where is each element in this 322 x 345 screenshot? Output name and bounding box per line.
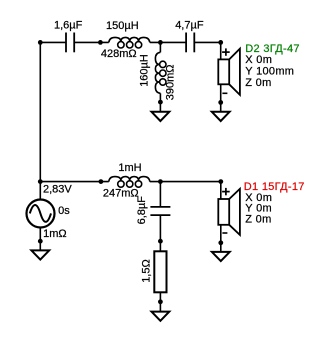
D2 plus terminal [222, 48, 230, 55]
junction C3-R1 [158, 239, 163, 244]
svg-text:Y 100mm: Y 100mm [245, 66, 294, 78]
svg-text:247mΩ: 247mΩ [103, 188, 139, 200]
node C1-L1 [98, 40, 103, 45]
node L1-C2-L2 [158, 40, 163, 45]
inductor L1 150µH / 428mΩ [109, 37, 150, 48]
capacitor C2 4,7µF plates [186, 33, 194, 53]
wire node to L2 [159, 42, 161, 52]
D2 minus terminal [222, 92, 227, 94]
wire L2 to ground [159, 93, 161, 112]
wire C3 to R1 [159, 216, 161, 252]
speaker D1 symbol [218, 189, 240, 235]
svg-text:D2 3ГД-47: D2 3ГД-47 [245, 43, 300, 55]
svg-text:1,6µF: 1,6µF [54, 19, 83, 31]
ground under R1 [152, 312, 170, 321]
wire D1 to ground [220, 225, 222, 252]
svg-text:160µH: 160µH [138, 54, 150, 87]
node source-L3 [99, 179, 104, 184]
resistor R1 1,5Ω body [154, 251, 166, 292]
wire D2 to ground [220, 84, 222, 112]
wire left rail vertical [39, 42, 41, 181]
junction D1-ground [218, 240, 223, 245]
wire C2 to D2 node [195, 41, 221, 43]
svg-text:2,83V: 2,83V [43, 183, 72, 195]
wire bottom rail: source to L3 [40, 181, 109, 183]
junction source-ground [38, 239, 43, 244]
svg-text:Z 0m: Z 0m [245, 214, 271, 226]
capacitor C3 6,8µF plates [150, 207, 170, 215]
junction D2-ground [218, 100, 223, 105]
node source-bottom rail [38, 179, 43, 184]
ground under D1 [212, 252, 230, 261]
D1 plus terminal [222, 188, 230, 195]
junction L2-ground [158, 100, 163, 105]
svg-text:0s: 0s [58, 205, 70, 217]
source V1 circle [27, 200, 55, 228]
inductor L2 160µH / 390mΩ vertical [155, 52, 166, 93]
ground under D2 [212, 112, 230, 121]
wire C1 to L1 [75, 41, 109, 43]
svg-text:428mΩ: 428mΩ [101, 48, 137, 60]
svg-text:1,5Ω: 1,5Ω [141, 259, 153, 283]
inductor L3 1mH / 247mΩ [109, 177, 150, 188]
ground under L2 [152, 112, 170, 121]
source V1 sine [30, 205, 51, 222]
svg-text:X 0m: X 0m [245, 54, 272, 66]
capacitor C1 1,6µF plates [66, 33, 74, 53]
node L3-C3 [158, 179, 163, 184]
junction R1-ground [158, 299, 163, 304]
wire source to ground [39, 228, 41, 251]
speaker D2 symbol [218, 49, 240, 95]
svg-text:Z 0m: Z 0m [245, 77, 271, 89]
svg-text:1mH: 1mH [118, 162, 141, 174]
node top-left corner [38, 40, 43, 45]
wire node to D2 [220, 42, 222, 59]
node L3-D1 [218, 179, 223, 184]
svg-text:1mΩ: 1mΩ [43, 228, 67, 240]
wire node to C3 [159, 182, 161, 207]
wire L1 to C2 [150, 41, 186, 43]
svg-text:150µH: 150µH [106, 20, 139, 32]
svg-text:6,8µF: 6,8µF [136, 196, 148, 225]
svg-text:390mΩ: 390mΩ [164, 64, 176, 100]
D1 minus terminal [222, 232, 227, 234]
svg-text:4,7µF: 4,7µF [175, 19, 204, 31]
wire top rail: left corner to C1 [40, 41, 65, 43]
node C2-D2 [218, 40, 223, 45]
wire L3 to D1 node [150, 181, 221, 183]
ground under source [31, 250, 49, 259]
wire node to D1 [220, 182, 222, 199]
wire R1 to ground [159, 292, 161, 311]
wire to source top [39, 182, 41, 200]
